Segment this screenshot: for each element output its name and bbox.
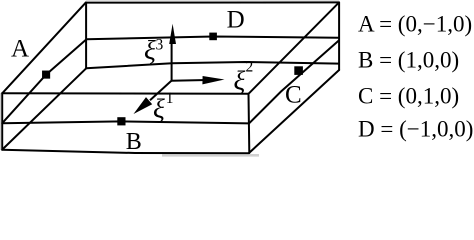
svg-text:D: D xyxy=(227,6,245,33)
svg-text:2: 2 xyxy=(246,59,254,76)
wire top-back edge xyxy=(86,1,339,3)
wire front-bottom edge xyxy=(2,150,249,154)
axis xi3 shaft xyxy=(171,40,173,81)
svg-text:B: B xyxy=(126,129,142,155)
wire bottom-left edge xyxy=(2,68,86,149)
wire top-left edge xyxy=(2,3,86,94)
svg-text:ξ: ξ xyxy=(153,93,165,124)
svg-text:ξ: ξ xyxy=(234,65,246,96)
wire front-mid edge (middle surface front trace) xyxy=(2,121,249,123)
wire back-right vertical edge xyxy=(338,2,340,70)
svg-text:ξ: ξ xyxy=(144,34,156,65)
svg-text:C: C xyxy=(285,82,302,109)
svg-text:B = (1,0,0): B = (1,0,0) xyxy=(358,48,459,73)
wire mid-left edge (middle surface left trace) xyxy=(2,39,86,123)
axis xi1 shaft xyxy=(150,81,171,101)
wire front-left vertical edge xyxy=(1,93,3,149)
svg-text:1: 1 xyxy=(166,90,174,107)
svg-text:C = (0,1,0): C = (0,1,0) xyxy=(358,84,459,109)
axis xi3 arrowhead xyxy=(169,24,176,44)
scan artifact: gray sliver left edge xyxy=(0,93,1,150)
axis xi2 arrowhead xyxy=(202,76,224,84)
wire back-bottom edge xyxy=(86,62,339,68)
svg-text:A = (0,−1,0): A = (0,−1,0) xyxy=(358,12,472,37)
svg-text:3: 3 xyxy=(156,37,164,54)
wire front-top edge xyxy=(2,92,248,95)
wire mid-back edge (middle surface back trace) xyxy=(87,37,339,40)
wire mid-right edge (middle surface right trace) xyxy=(249,41,339,124)
wire front-right vertical edge xyxy=(248,94,251,153)
svg-text:A: A xyxy=(11,35,29,62)
axis xi2 shaft xyxy=(171,79,207,82)
node D marker xyxy=(209,33,217,41)
wire back-left vertical edge xyxy=(85,3,87,69)
wire bottom-right edge xyxy=(249,70,339,153)
scan artifact: gray sliver top edge xyxy=(86,0,339,1)
node A marker xyxy=(42,71,50,79)
wire top-right edge xyxy=(249,3,339,94)
svg-text:D = (−1,0,0): D = (−1,0,0) xyxy=(358,116,473,141)
scan artifact: gray band below bottom edge xyxy=(162,154,259,157)
node B marker xyxy=(117,117,125,125)
node C marker xyxy=(294,66,303,75)
axis xi1 arrowhead xyxy=(134,97,153,114)
